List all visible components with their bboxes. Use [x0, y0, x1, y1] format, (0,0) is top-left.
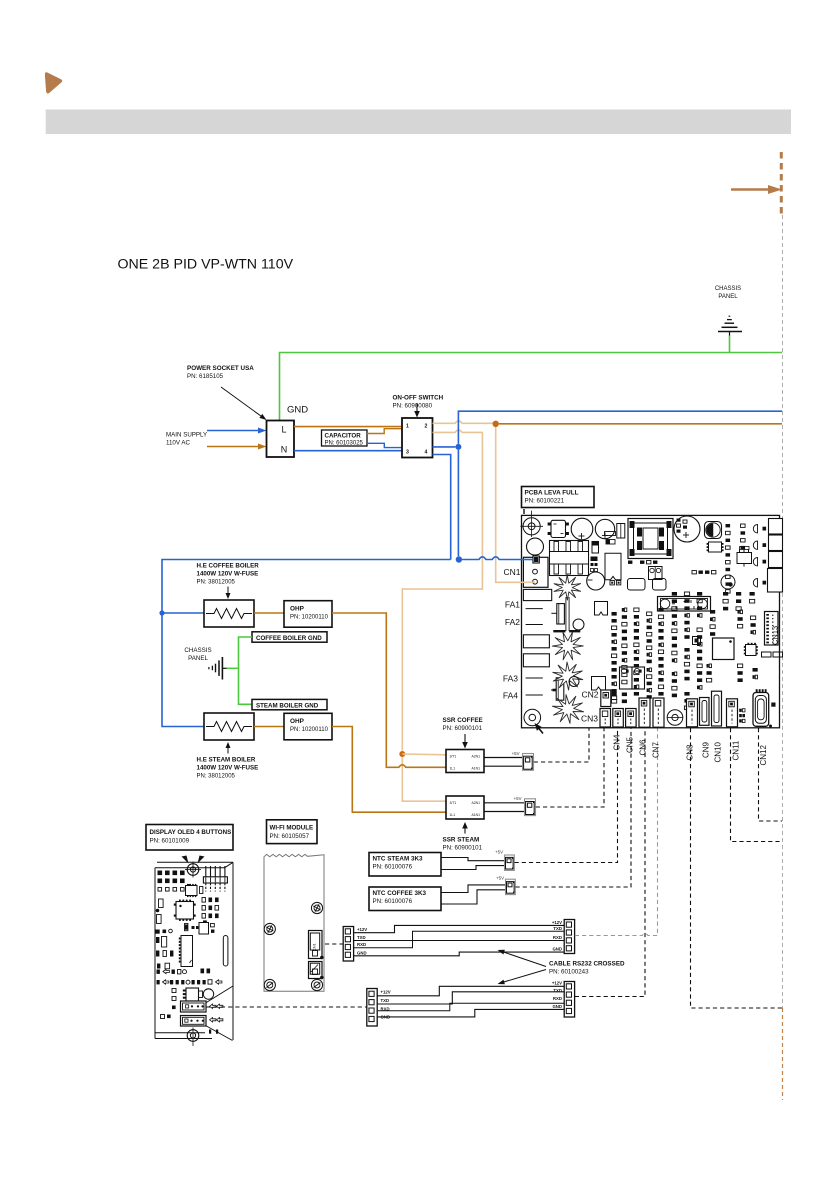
- pin L label: [281, 425, 286, 435]
- svg-text:PANEL: PANEL: [188, 655, 208, 662]
- svg-text:1400W 120V W-FUSE: 1400W 120V W-FUSE: [197, 765, 259, 772]
- arrow rs232 upper: [498, 950, 547, 967]
- label +5V (ssr coffee): [512, 751, 520, 756]
- pcb pad cluster lower1: [684, 648, 689, 680]
- svg-text:TXD: TXD: [357, 935, 366, 940]
- pcb pad strip s2: [622, 608, 627, 669]
- pcb connector CN11c: [727, 699, 738, 727]
- node C junction dot (blue): [455, 444, 461, 450]
- wire node A to PCB right (dark orange): [499, 423, 782, 425]
- wire OHP steam to SSR steam (orange): [332, 727, 446, 813]
- wire coffee boiler to OHP (dark orange): [254, 612, 284, 614]
- wire stub blue into CN1: [521, 559, 534, 561]
- pcb filter inductor L1: [550, 541, 589, 576]
- label FA1: [505, 600, 520, 610]
- switch pin 4: [425, 450, 428, 456]
- wire main blue bus to boilers (blue): [162, 560, 451, 727]
- svg-text:+12V: +12V: [552, 980, 562, 985]
- svg-text:CHASSIS: CHASSIS: [184, 647, 211, 654]
- svg-text:GND: GND: [357, 950, 367, 955]
- pin N label: [281, 445, 288, 455]
- label GND: [287, 405, 308, 416]
- svg-text:SSR COFFEE: SSR COFFEE: [443, 717, 483, 724]
- label +5V (ntc coffee): [496, 876, 504, 881]
- pcb ic U4: [744, 643, 758, 656]
- svg-text:WI-FI MODULE: WI-FI MODULE: [270, 825, 314, 832]
- pcb heatsink star 3: [553, 662, 583, 690]
- svg-text:+5V: +5V: [514, 796, 522, 801]
- display slot: [223, 936, 228, 967]
- svg-text:PN: 60900101: PN: 60900101: [443, 725, 483, 732]
- svg-text:DISPLAY OLED 4 BUTTONS: DISPLAY OLED 4 BUTTONS: [150, 829, 232, 836]
- node A junction dot (orange): [493, 421, 499, 427]
- ground symbol chassis left: [209, 657, 227, 680]
- svg-text:+12V: +12V: [552, 920, 562, 925]
- label CN10: [714, 741, 723, 762]
- pcb part rect C: [617, 524, 625, 539]
- SSR steam pin labels: [450, 801, 481, 817]
- display U8 driver soic: [179, 936, 193, 967]
- wire switch pin2 to node A (tan, hop over blue): [433, 421, 493, 423]
- pcb small circle C: [569, 677, 579, 687]
- display U7: [199, 920, 214, 934]
- pcb pad cluster U3side: [707, 664, 712, 682]
- pcb pads y575 group: [692, 571, 716, 574]
- power socket J1 box: [267, 421, 295, 458]
- pcb scr Q2a: [551, 604, 564, 624]
- svg-text:CN8: CN8: [686, 744, 695, 761]
- svg-text:TXD: TXD: [553, 926, 562, 931]
- svg-text:GND: GND: [552, 1004, 562, 1009]
- wire switch pin4 to node C (blue): [433, 446, 456, 448]
- resistor element steam: [206, 722, 252, 732]
- svg-text:CN1: CN1: [503, 567, 520, 577]
- svg-text:CABLE RS232 CROSSED: CABLE RS232 CROSSED: [549, 961, 625, 968]
- wire GND green from socket to chassis: [280, 353, 783, 421]
- switch pin 2: [425, 424, 428, 430]
- label CN9: [701, 741, 710, 758]
- pcb connector CN1: [523, 556, 548, 587]
- wire green ground stem left: [227, 667, 240, 669]
- pcb inductor L2: [705, 522, 722, 539]
- connector J1R (pcb side): [564, 920, 574, 954]
- pcb relay block K3: [769, 552, 783, 568]
- display misc parts left: [156, 899, 174, 969]
- pcb cap C1: [571, 518, 593, 540]
- dashed CN8 column: [691, 728, 783, 1008]
- pcb tick below label: [523, 509, 525, 514]
- display pad grid: [158, 871, 191, 892]
- svg-text:PN: 10200110: PN: 10200110: [290, 727, 329, 733]
- pcb pad strip s2b: [622, 673, 627, 684]
- svg-text:CN11: CN11: [732, 740, 741, 760]
- pcb small circle B: [573, 619, 584, 630]
- wire node C up and right to PCB (blue): [458, 411, 782, 444]
- node coffee-boiler junction dot (blue): [159, 610, 164, 615]
- svg-text:+12V: +12V: [381, 990, 391, 995]
- svg-text:H.E COFFEE BOILER: H.E COFFEE BOILER: [197, 563, 260, 570]
- wire ntc coffee 2: [441, 890, 506, 904]
- labels J2R pins: [552, 980, 562, 1008]
- svg-text:OHP: OHP: [290, 718, 305, 725]
- pcb fuse FA4 body: [523, 654, 549, 667]
- svg-text:CN2: CN2: [581, 690, 598, 700]
- arrow rs232 lower: [498, 970, 547, 985]
- wire green steam gnd: [239, 669, 253, 705]
- svg-text:COFFEE BOILER GND: COFFEE BOILER GND: [256, 635, 322, 642]
- svg-text:FA3: FA3: [503, 674, 518, 684]
- pcb diode row right: [753, 525, 766, 587]
- svg-text:TXD: TXD: [553, 988, 562, 993]
- dashed display CN-A to RS232 J2L: [207, 1006, 367, 1008]
- wire J1 RXD-TXD cross: [354, 931, 564, 947]
- wire SSR steam out1: [484, 802, 525, 804]
- svg-text:+5V: +5V: [496, 876, 504, 881]
- svg-text:PANEL: PANEL: [718, 294, 738, 300]
- pcb transformer T1: [628, 519, 673, 559]
- node B junction dot (orange): [399, 751, 405, 757]
- display mounting hole top: [185, 862, 201, 878]
- display pads mid: [185, 924, 199, 931]
- wire node D to CN1 (blue, hops): [462, 557, 521, 560]
- wire capacitor to N node (blue): [367, 443, 402, 447]
- pcb pad right of CN12: [769, 703, 776, 728]
- connector ssr-coffee plug: [523, 754, 534, 771]
- svg-text:NTC STEAM 3K3: NTC STEAM 3K3: [373, 856, 424, 863]
- svg-text:FA2: FA2: [505, 617, 520, 627]
- connector J1L (wifi side): [343, 927, 353, 962]
- pcb pad cluster right2: [751, 616, 756, 634]
- display arrow pads right: [209, 1004, 223, 1034]
- svg-text:A1N1: A1N1: [472, 813, 481, 817]
- pcb pad cluster mid2: [710, 610, 715, 636]
- pcb connector CN8c: [687, 699, 698, 727]
- arrow display label left: [182, 856, 189, 864]
- pcb heatsink bar: [553, 630, 580, 632]
- connector ntc-coffee plug: [506, 879, 516, 894]
- svg-text:1L1: 1L1: [450, 766, 456, 770]
- pcb pad strip s8: [697, 592, 702, 617]
- SSR coffee pin labels: [450, 754, 481, 770]
- pcb pad cluster bottomrow: [684, 692, 689, 710]
- pcb black pad stack A: [591, 557, 598, 572]
- label CN3: [581, 714, 598, 724]
- svg-text:CN5: CN5: [625, 736, 634, 753]
- pcb connector CN12c usb: [753, 689, 769, 726]
- pcb rounded box B: [653, 579, 667, 591]
- pcb pad strip s5: [658, 608, 663, 696]
- svg-text:CN3: CN3: [581, 714, 598, 724]
- arrow coffee-boiler label: [226, 587, 231, 600]
- svg-text:3: 3: [406, 450, 409, 456]
- wire J1 TXD straight: [354, 940, 564, 942]
- svg-text:RXD: RXD: [553, 935, 562, 940]
- svg-text:PN: 38012005: PN: 38012005: [197, 580, 236, 586]
- capacitor C1 box: [322, 430, 368, 446]
- display pads near Q3: [161, 989, 177, 1019]
- pcb rounded box A: [628, 579, 646, 591]
- arrow display label right: [198, 856, 205, 864]
- pcb connector CN3a: [600, 709, 611, 728]
- pcb mounting hole BR: [667, 710, 683, 726]
- wire green coffee gnd: [239, 637, 253, 669]
- pcb bridge rectifier BR1: [548, 520, 569, 537]
- svg-text:+12V: +12V: [357, 927, 367, 932]
- display buzzer: [203, 989, 213, 999]
- display PCB outline: [155, 862, 233, 1040]
- pcb pads near cn2: [612, 693, 628, 704]
- svg-text:STEAM BOILER GND: STEAM BOILER GND: [256, 703, 319, 710]
- pcb pad strip s4b: [647, 668, 652, 699]
- pcb pad strip s4: [647, 612, 652, 663]
- label CN1: [503, 567, 520, 577]
- svg-text:N: N: [281, 445, 288, 455]
- arrow steam-boiler label: [226, 742, 231, 754]
- svg-text:RXD: RXD: [357, 942, 366, 947]
- wire OHP coffee to SSR coffee (dark orange): [332, 613, 446, 767]
- resistor element coffee: [206, 609, 252, 619]
- pcb pads top mid: [677, 519, 688, 533]
- display header P1: [203, 866, 227, 892]
- label COFFEE BOILER GND box: [252, 632, 327, 642]
- label FA2: [505, 617, 520, 627]
- wire ntc coffee 1: [441, 885, 506, 893]
- connector ntc-steam plug: [505, 855, 515, 870]
- svg-text:POWER SOCKET USA: POWER SOCKET USA: [187, 365, 254, 372]
- wifi connector CN1w: [309, 931, 324, 960]
- pcb connector CN3b: [613, 709, 624, 728]
- pcb fuse FA3 body: [523, 635, 549, 648]
- pcb heatsink star 1: [554, 575, 581, 600]
- display pads right of mcu: [202, 898, 219, 919]
- pcb fuse FA1 body: [523, 589, 551, 600]
- pcb connector CN6c tall: [639, 698, 650, 727]
- wire J2 GND: [377, 1009, 564, 1017]
- pcb pad strip s7: [684, 592, 689, 639]
- labels J2L pins: [381, 990, 391, 1020]
- connector ssr-steam plug: [525, 799, 536, 816]
- pcb pad column x742: [741, 524, 746, 549]
- svg-text:PN: 6185105: PN: 6185105: [187, 373, 224, 380]
- pcb mounting hole BL: [524, 709, 541, 726]
- switch pin 1: [406, 424, 409, 430]
- node D junction dot (blue): [456, 556, 462, 562]
- wire node C down to node D (blue): [457, 450, 459, 556]
- logo triangle: [45, 72, 62, 93]
- label OHP steam: [290, 718, 329, 733]
- svg-text:PN: 38012005: PN: 38012005: [197, 774, 236, 780]
- pcb connector CN13: [765, 612, 779, 646]
- svg-text:ON-OFF SWITCH: ON-OFF SWITCH: [393, 395, 444, 402]
- svg-text:PN: 10200110: PN: 10200110: [290, 615, 329, 621]
- wire node B down to SSR steam (tan): [402, 757, 446, 801]
- header gray bar: [46, 110, 791, 135]
- pcb connector CN3c: [626, 709, 637, 728]
- wifi module outline: [264, 854, 324, 991]
- pcb pad cluster right4: [753, 668, 758, 679]
- svg-text:PN: 60103025: PN: 60103025: [325, 441, 364, 447]
- display mounting hole bottom: [187, 1028, 199, 1047]
- wire blue to coffee boiler: [162, 612, 204, 614]
- arrow power-socket label to socket: [221, 387, 267, 420]
- pcb part rect B: [605, 532, 616, 536]
- title ONE 2B PID VP-WTN 110V: [118, 257, 294, 273]
- pcb cap C5: [721, 575, 735, 589]
- svg-text:L: L: [281, 425, 286, 435]
- wire chassis ground stem (green): [729, 336, 731, 353]
- NTC STEAM 3K3 box: [369, 853, 441, 877]
- svg-text:OHP: OHP: [290, 606, 305, 613]
- label SSR COFFEE: [443, 717, 483, 732]
- label POWER SOCKET USA: [187, 365, 254, 380]
- label H.E COFFEE BOILER: [197, 563, 260, 586]
- labels J1R pins: [552, 920, 562, 952]
- wire ntc steam 1: [441, 858, 505, 861]
- pcb cap C2: [595, 519, 614, 538]
- pcb pad cluster mid5: [750, 592, 755, 603]
- svg-text:FA4: FA4: [503, 691, 518, 701]
- svg-text:CN4: CN4: [612, 734, 621, 751]
- label OHP coffee: [290, 606, 329, 621]
- dashed CN3 to ssr-coffee: [534, 728, 589, 762]
- display U5 soic: [186, 884, 203, 897]
- label CN8: [686, 744, 695, 761]
- svg-text:TXD: TXD: [381, 998, 390, 1003]
- svg-text:SSR STEAM: SSR STEAM: [443, 837, 480, 844]
- svg-text:2: 2: [425, 424, 428, 430]
- label MAIN SUPPLY: [166, 432, 207, 447]
- pcb small circle A: [527, 538, 544, 555]
- svg-text:A1N1: A1N1: [472, 766, 481, 770]
- svg-text:PN: 60900101: PN: 60900101: [443, 845, 483, 852]
- display connector CN-A: [181, 1001, 207, 1012]
- pcb pads y560 row: [628, 561, 657, 564]
- wire N to on-off switch (blue): [294, 450, 402, 452]
- svg-text:PN: 60100076: PN: 60100076: [373, 898, 413, 905]
- label FA3: [503, 674, 518, 684]
- svg-text:RXD: RXD: [553, 996, 562, 1001]
- pcb cap C3: [674, 516, 700, 542]
- wifi screw 1: [264, 923, 275, 934]
- svg-text:GND: GND: [287, 405, 308, 416]
- label NTC STEAM 3K3: [373, 856, 424, 871]
- svg-text:1L1: 1L1: [450, 813, 456, 817]
- svg-text:MAIN SUPPLY: MAIN SUPPLY: [166, 432, 207, 439]
- wire node B to SSR coffee input (tan): [402, 753, 446, 756]
- display Q3 regulator: [183, 988, 203, 1001]
- label CN6: [638, 739, 647, 756]
- svg-text:A2N1: A2N1: [472, 801, 481, 805]
- wifi screw 2: [311, 902, 322, 913]
- svg-text:NTC COFFEE 3K3: NTC COFFEE 3K3: [373, 890, 427, 897]
- arrow ssr-steam label: [462, 822, 468, 834]
- wire MAIN SUPPLY live (blue) with arrow: [207, 428, 267, 434]
- heater steam boiler R2 box: [204, 713, 254, 740]
- wire ntc steam 2: [441, 866, 505, 870]
- svg-text:CN6: CN6: [638, 739, 647, 756]
- pcb part rect A: [606, 540, 615, 545]
- on-off switch S1 box: [402, 418, 433, 458]
- svg-text:CN9: CN9: [701, 741, 710, 758]
- pcb FA1 tick: [526, 608, 543, 610]
- pcb transistor Q1: [737, 547, 752, 567]
- pcb FA3 tick: [526, 677, 543, 679]
- pcb connector CN7c tall: [653, 698, 664, 727]
- pcb pad cluster lower2: [697, 664, 702, 689]
- pcb FA4 tick: [526, 694, 543, 696]
- revision dashed line brown (top): [780, 152, 783, 215]
- pcb pad strip s3: [634, 608, 639, 696]
- svg-text:PN: 60105057: PN: 60105057: [270, 833, 310, 840]
- svg-text:A2N1: A2N1: [472, 754, 481, 758]
- label CHASSIS PANEL (left): [184, 647, 211, 662]
- wire switch pin4b down (blue): [433, 455, 451, 560]
- pcb connector CN2: [601, 690, 611, 707]
- label ON-OFF SWITCH: [393, 395, 444, 410]
- pcb pad cluster mid1: [697, 628, 702, 660]
- svg-text:CHASSIS: CHASSIS: [715, 286, 741, 292]
- label DISPLAY OLED 4 BUTTONS box: [146, 825, 233, 851]
- pcb notch box A: [595, 602, 608, 616]
- pcb connector CN10c: [712, 691, 722, 726]
- label CAPACITOR: [325, 432, 364, 446]
- wire SSR coffee out1: [484, 757, 523, 759]
- pcb pad cluster mid3: [723, 592, 728, 610]
- label +5V (ntc steam): [495, 850, 503, 855]
- svg-text:+5V: +5V: [495, 850, 503, 855]
- svg-text:PN: 60900080: PN: 60900080: [393, 403, 433, 410]
- pcb connector CN9c: [700, 698, 710, 726]
- switch pin 3: [406, 450, 409, 456]
- wire L to on-off switch (dark orange): [294, 426, 402, 428]
- label SSR STEAM: [443, 837, 483, 852]
- svg-text:CN12: CN12: [759, 744, 768, 765]
- pcb relay block K1: [769, 519, 783, 535]
- wire J2 RXD-TXD: [377, 1003, 564, 1010]
- dashed CN5 to ntc-steam: [515, 728, 618, 863]
- svg-text:GND: GND: [552, 946, 562, 951]
- page boundary dashed line brown (bottom): [782, 1008, 784, 1100]
- label CN7: [651, 741, 660, 758]
- wifi screw 4: [311, 979, 322, 990]
- NTC COFFEE 3K3 box: [369, 887, 441, 911]
- svg-text:CN7: CN7: [651, 741, 660, 758]
- display pad row 1: [157, 969, 211, 974]
- svg-text:PN: 60100243: PN: 60100243: [549, 969, 589, 976]
- label CN12: [759, 744, 768, 765]
- svg-text:PN: 60100076: PN: 60100076: [373, 864, 413, 871]
- svg-text:CAPACITOR: CAPACITOR: [325, 432, 362, 439]
- connector J2R (pcb side): [564, 982, 574, 1018]
- pcb pad cluster right1: [738, 610, 743, 628]
- page boundary dashed line gray: [782, 215, 784, 1008]
- label CABLE RS232 CROSSED: [549, 961, 625, 976]
- svg-text:CN10: CN10: [714, 741, 723, 762]
- svg-text:4: 4: [425, 450, 428, 456]
- svg-text:110V AC: 110V AC: [166, 440, 190, 447]
- pcb round cap C4: [587, 572, 605, 590]
- wire capacitor to L node (dark orange): [367, 429, 402, 434]
- pcb heatsink trunk: [566, 597, 569, 631]
- label STEAM BOILER GND box: [252, 699, 327, 709]
- pcb small ic B: [693, 637, 701, 645]
- wifi screw 3: [264, 979, 275, 990]
- svg-text:+5V: +5V: [512, 751, 520, 756]
- dashed gray J1R to CN7: [575, 728, 658, 936]
- wire steam boiler to OHP (dark orange): [254, 726, 284, 728]
- display U6 mcu qfp: [174, 900, 196, 921]
- label CN5: [625, 736, 634, 753]
